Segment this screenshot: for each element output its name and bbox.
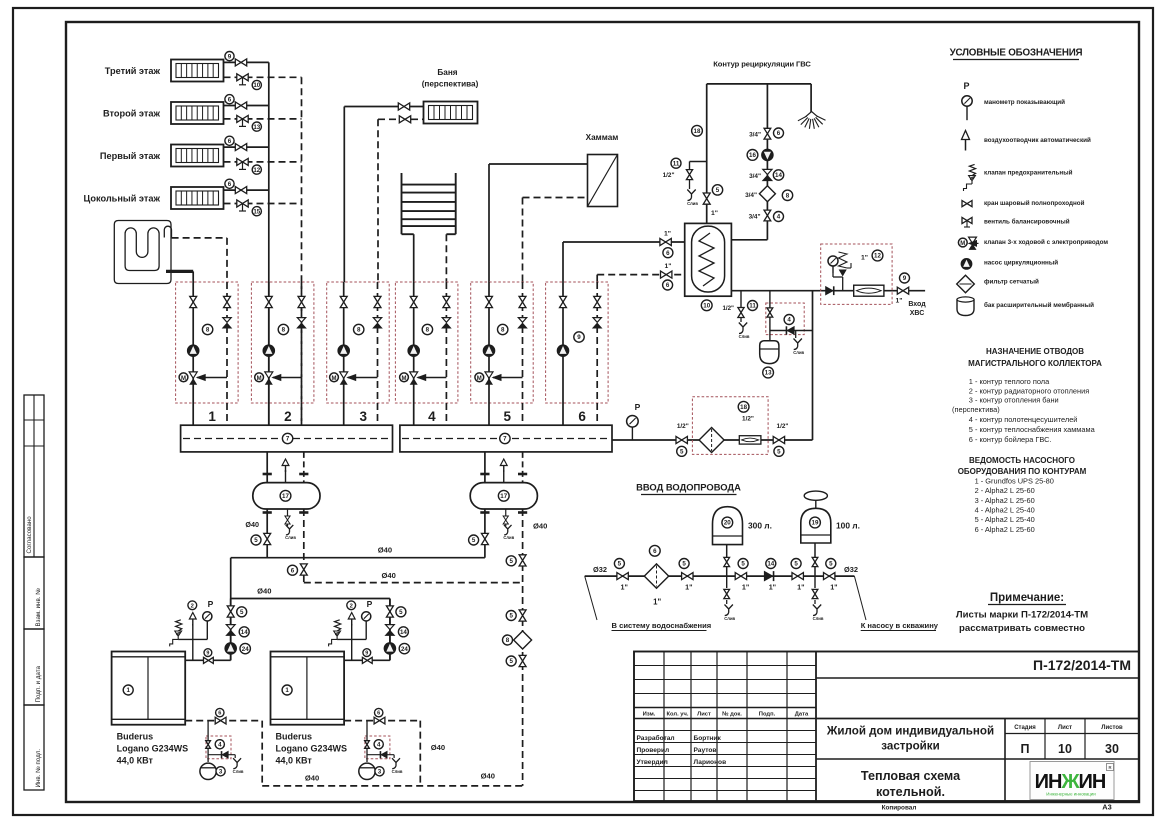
svg-text:6: 6: [228, 138, 232, 145]
svg-text:1": 1": [797, 583, 804, 592]
svg-text:Подп. и дата: Подп. и дата: [35, 665, 42, 702]
svg-text:клапан 3-х ходовой с электропр: клапан 3-х ходовой с электроприводом: [984, 238, 1108, 246]
svg-text:ВЕДОМОСТЬ НАСОСНОГО: ВЕДОМОСТЬ НАСОСНОГО: [969, 456, 1075, 465]
wire: circuit 5 return drop (dashed): [522, 282, 524, 425]
check valve on circuit 1 return: [223, 318, 231, 328]
title block signature rows: [637, 734, 727, 766]
node 9 label circuit 6: [574, 332, 584, 342]
svg-text:1": 1": [664, 231, 671, 238]
svg-text:4 - контур полотенцесушителей: 4 - контур полотенцесушителей: [969, 415, 1078, 424]
svg-text:2 - Alpha2 L 25-60: 2 - Alpha2 L 25-60: [975, 486, 1035, 495]
svg-text:Утвердил: Утвердил: [637, 759, 668, 766]
expansion connection red box 4 boiler 2: [365, 721, 394, 762]
legend title УСЛОВНЫЕ ОБОЗНАЧЕНИЯ: [950, 48, 1083, 60]
svg-text:Ø40: Ø40: [245, 520, 259, 529]
legend: pressure gauge symbol: [962, 81, 1065, 120]
svg-text:8: 8: [357, 327, 361, 334]
drain hook boiler 1 expansion: [233, 755, 244, 774]
drain below 100l tee: [812, 576, 824, 621]
svg-text:5: 5: [680, 449, 684, 456]
svg-text:19: 19: [812, 520, 819, 527]
ball valve on bania supply: [398, 103, 409, 110]
wire: boiler 1 outlet to riser: [185, 659, 231, 661]
svg-text:6: 6: [228, 181, 232, 188]
balancing valve 13 on return of radiator 2: [237, 115, 262, 131]
svg-text:клапан предохранительный: клапан предохранительный: [984, 169, 1073, 177]
expansion tank 13 (мембранный): [760, 341, 779, 378]
wire: circuit 2 return drop (dashed): [301, 282, 303, 425]
svg-text:Ø40: Ø40: [481, 772, 495, 781]
drain on separator A: [285, 509, 296, 540]
pump circuit 4: [408, 345, 420, 357]
svg-text:M: M: [181, 376, 186, 382]
safety valve on boiler 1 safety group: [170, 620, 182, 647]
wire: tank supply from circuit 6 (solid): [563, 242, 685, 282]
svg-text:4: 4: [428, 409, 436, 424]
svg-text:8: 8: [282, 327, 286, 334]
svg-text:5: 5: [503, 409, 511, 424]
boiler 1 label: [117, 732, 189, 766]
ball valve on circuit 6 supply: [560, 296, 567, 307]
wire: circuit 3 return drop (dashed): [377, 282, 379, 425]
ball valve on circuit 3 supply: [340, 296, 347, 307]
svg-text:Третий этаж: Третий этаж: [105, 66, 161, 76]
svg-text:Бортник: Бортник: [694, 735, 722, 742]
filter unit red box 18 on make-up line: [692, 397, 768, 455]
wire: circuit 5 supply drop: [488, 282, 490, 425]
leader: К насосу в скважину: [854, 576, 938, 630]
ball valve on circuit 1 supply: [190, 296, 197, 307]
svg-text:24: 24: [401, 646, 408, 653]
pump circuit 4 red dashed box: [395, 282, 458, 403]
svg-text:Ø32: Ø32: [844, 565, 858, 574]
svg-text:9: 9: [903, 275, 907, 282]
pressure tank 19 100l with gauge: [801, 491, 860, 543]
flanges on separator B bottom ports: [480, 511, 527, 514]
wire: serpentine return to circuit 1 (dashed): [172, 238, 227, 282]
text block ВЕДОМОСТЬ НАСОСНОГО ОБОРУДОВАНИЯ: [958, 456, 1087, 534]
wire: GVS recirc right drop to shower: [810, 84, 812, 112]
svg-text:8: 8: [426, 327, 430, 334]
svg-text:11: 11: [749, 303, 756, 310]
svg-text:воздухоотводчик автоматический: воздухоотводчик автоматический: [984, 136, 1091, 144]
svg-text:8: 8: [501, 327, 505, 334]
3-way valve with M drive circuit 3: [330, 372, 378, 385]
svg-text:Ø40: Ø40: [257, 587, 271, 596]
radiator Баня (перспектива): [422, 68, 479, 124]
svg-text:Кол. уч.: Кол. уч.: [666, 711, 688, 717]
legend: pump symbol: [961, 259, 1058, 270]
svg-text:1/2": 1/2": [677, 423, 689, 430]
left margin stamp box Взам. инв. №: [24, 557, 44, 629]
svg-text:1: 1: [208, 409, 216, 424]
3-way valve with M drive circuit 1: [179, 372, 227, 385]
svg-text:7: 7: [286, 436, 290, 443]
3-way valve with M drive circuit 2: [255, 372, 302, 385]
svg-text:17: 17: [282, 493, 289, 500]
wire: branch to drain near tank top: [690, 162, 707, 170]
svg-text:Ø40: Ø40: [533, 522, 547, 531]
svg-text:А3: А3: [1102, 803, 1111, 812]
flanges on separator A bottom ports: [263, 511, 309, 514]
flanges on separator B top ports: [480, 473, 527, 476]
svg-text:Logano G234WS: Logano G234WS: [117, 744, 189, 754]
wire: towel rail supply leg: [413, 234, 415, 282]
flanges on separator A top ports: [263, 473, 309, 476]
title block frame: [634, 652, 1139, 802]
svg-text:2: 2: [350, 603, 353, 609]
svg-text:8: 8: [506, 637, 510, 644]
svg-text:6: 6: [666, 282, 670, 289]
svg-text:П-172/2014-ТМ: П-172/2014-ТМ: [1033, 657, 1131, 673]
left margin stamp box Согласовано: [24, 395, 44, 557]
svg-text:Примечание:: Примечание:: [990, 592, 1064, 604]
ball valve 6 1" on tank supply: [660, 231, 673, 258]
ball valve on circuit 4 return: [443, 296, 450, 307]
svg-text:44,0 КВт: 44,0 КВт: [276, 756, 313, 766]
object name cell: [816, 725, 1139, 800]
svg-text:Слив: Слив: [687, 201, 698, 206]
svg-text:6: 6: [291, 567, 295, 574]
svg-text:кран шаровый полнопроходной: кран шаровый полнопроходной: [984, 199, 1085, 207]
drain on separator B: [503, 509, 514, 540]
svg-text:6: 6: [653, 548, 657, 555]
svg-text:6: 6: [578, 409, 586, 424]
check valve on circuit 4 return: [442, 318, 450, 328]
svg-text:2 - контур радиаторного отопле: 2 - контур радиаторного отопления: [969, 386, 1089, 395]
svg-text:12: 12: [874, 253, 881, 260]
wire return from radiator 1 (dashed): [224, 76, 302, 78]
svg-text:3/4": 3/4": [749, 214, 761, 221]
ball valve on circuit 5 return: [519, 296, 526, 307]
svg-text:10: 10: [253, 82, 260, 89]
svg-text:Ø40: Ø40: [431, 743, 445, 752]
svg-text:Слив: Слив: [813, 616, 824, 621]
svg-text:Контур рециркуляции ГВС: Контур рециркуляции ГВС: [713, 60, 811, 69]
svg-text:Лист: Лист: [697, 711, 711, 717]
svg-text:100 л.: 100 л.: [836, 521, 860, 531]
air vent 2 on boiler 2 safety group: [347, 601, 356, 640]
svg-text:Buderus: Buderus: [117, 732, 154, 742]
svg-text:6: 6: [228, 96, 232, 103]
svg-text:Проверил: Проверил: [637, 747, 670, 754]
drain hook Слив (tank top branch): [687, 180, 698, 206]
legend: 3-way valve with M symbol: [958, 237, 1108, 250]
ball valve on circuit 2 supply: [265, 296, 272, 307]
wire: boiler 2 riser: [389, 599, 391, 661]
wire: bottom return header (dashed) Ø40: [262, 743, 522, 786]
wire supply from radiator 2: [224, 105, 269, 107]
svg-text:5: 5: [741, 561, 745, 568]
wire: GVS recirc top header: [707, 83, 811, 85]
svg-text:5: 5: [682, 561, 686, 568]
svg-text:P: P: [208, 599, 214, 609]
svg-text:3/4": 3/4": [749, 173, 761, 180]
wire: circuit 4 supply drop: [413, 282, 415, 425]
svg-text:Слив: Слив: [503, 535, 514, 540]
ball valve on bania return: [399, 116, 410, 123]
svg-text:Взам. инв. №: Взам. инв. №: [35, 588, 42, 627]
pump circuit 2: [263, 345, 275, 357]
air vent on separator A: [282, 459, 289, 483]
svg-text:УСЛОВНЫЕ ОБОЗНАЧЕНИЯ: УСЛОВНЫЕ ОБОЗНАЧЕНИЯ: [950, 48, 1083, 59]
ball valve 5 below filter on boiler return drop: [506, 655, 526, 666]
svg-text:10: 10: [1058, 742, 1072, 756]
legend: balancing valve symbol: [962, 217, 1070, 227]
svg-text:1 - Grundfos UPS 25-80: 1 - Grundfos UPS 25-80: [975, 476, 1054, 485]
svg-text:6 - Alpha2 L 25-60: 6 - Alpha2 L 25-60: [975, 525, 1035, 534]
svg-text:Баня: Баня: [437, 68, 457, 77]
svg-text:1": 1": [830, 583, 837, 592]
ball valve 4 3/4" on recirc middle drop: [749, 210, 784, 221]
wire return from radiator 3 (dashed): [224, 161, 302, 163]
svg-text:1 - контур теплого пола: 1 - контур теплого пола: [969, 377, 1050, 386]
pump 24 on boiler 2 riser: [384, 643, 409, 655]
wire supply from radiator 3: [224, 146, 269, 148]
balancing valve 10 on return of radiator 1: [237, 74, 262, 90]
node 8 label circuit 2: [278, 324, 288, 334]
pressure gauge P on boiler 2 safety group: [362, 599, 373, 639]
svg-text:16: 16: [749, 152, 756, 159]
document code П-172/2014-ТМ: [816, 657, 1139, 719]
wire: circuit 6 return drop (dashed): [596, 282, 598, 425]
svg-text:МАГИСТРАЛЬНОГО КОЛЛЕКТОРА: МАГИСТРАЛЬНОГО КОЛЛЕКТОРА: [968, 359, 1102, 368]
node 8 label circuit 3: [354, 324, 364, 334]
balancing valve 12 on return of radiator 3: [237, 158, 262, 174]
ball valve 6 3/4" on recirc middle drop: [749, 128, 783, 139]
wire: boiler 1 riser: [230, 599, 232, 661]
svg-text:6 - контур бойлера ГВС.: 6 - контур бойлера ГВС.: [969, 435, 1052, 444]
svg-text:Ларионов: Ларионов: [694, 759, 727, 766]
svg-text:Лист: Лист: [1058, 725, 1072, 731]
wire: separator B return port down (dashed): [522, 509, 524, 786]
svg-text:Копировал: Копировал: [882, 805, 917, 812]
ball valve on circuit 1 return: [224, 296, 231, 307]
svg-text:3 - Alpha2 L 25-60: 3 - Alpha2 L 25-60: [975, 496, 1035, 505]
valve 11 1/2" drain branch: [663, 158, 693, 179]
pump circuit 6: [557, 345, 569, 357]
ball valve 6 on supply of radiator 3: [225, 136, 247, 150]
svg-text:Слив: Слив: [793, 350, 804, 355]
ball valve 5 on boiler 1 riser: [227, 606, 246, 617]
svg-text:5: 5: [777, 449, 781, 456]
svg-text:Вход: Вход: [908, 301, 926, 308]
boiler 2 Buderus Logano G234WS: [271, 652, 345, 725]
ball valve 6 1" on tank return: [661, 263, 673, 290]
wire: boiler supply header Ø40: [231, 546, 485, 661]
3-way valve with M drive circuit 4: [400, 372, 447, 385]
pump circuit 5: [483, 345, 495, 357]
svg-text:1": 1": [620, 583, 627, 592]
ball valve 6 on supply of radiator 4: [225, 179, 247, 193]
wire: circuit 6 supply drop: [562, 282, 564, 425]
svg-text:2: 2: [284, 409, 292, 424]
svg-text:1": 1": [711, 210, 718, 217]
strainer filter 8 on boiler return drop: [503, 631, 532, 649]
hydraulic separator 17 (B): [470, 483, 537, 509]
pump 24 on boiler 1 riser: [225, 643, 251, 655]
wire: boiler 1 return (dashed): [185, 721, 262, 786]
node 8 label circuit 5: [498, 324, 508, 334]
boiler 2 label: [276, 732, 348, 766]
svg-text:Инженерные инновации: Инженерные инновации: [1046, 792, 1096, 797]
expansion tank 3 boiler 2: [359, 763, 384, 779]
svg-text:ВВОД ВОДОПРОВОДА: ВВОД ВОДОПРОВОДА: [636, 482, 741, 493]
svg-text:10: 10: [703, 303, 710, 310]
ball valve 5 1" #5 on water line: [824, 559, 838, 592]
wire: serpentine supply to circuit 1 (thick): [166, 271, 193, 282]
svg-text:(перспектива): (перспектива): [952, 405, 1000, 414]
towel rail (полотенцесушитель): [402, 173, 456, 234]
ball valve on circuit 3 return: [374, 296, 381, 307]
svg-text:1": 1": [685, 583, 692, 592]
hot water tank 10 (бойлер ГВС): [685, 223, 732, 310]
wire: tee to 300l tank: [726, 545, 728, 577]
wire: tank return to circuit 6 (dashed): [597, 275, 685, 282]
svg-text:Слив: Слив: [724, 616, 735, 621]
svg-text:8: 8: [206, 327, 210, 334]
collector 7 (A) магистральный коллектор: [181, 425, 393, 452]
svg-text:Слив: Слив: [233, 769, 244, 774]
ball valve 6 on boiler 2 return: [374, 708, 385, 724]
radiator Третий этаж: [105, 60, 224, 82]
ball valve 5 1" #3 on water line: [735, 559, 749, 592]
ball valve 5 on boiler 2 riser: [386, 606, 405, 617]
drain branch 11 1/2" under tank line: [722, 291, 757, 339]
wire supply from radiator 4: [224, 189, 269, 191]
svg-text:9: 9: [206, 651, 209, 657]
ball valve 5 Ø40 on separator A supply: [245, 520, 270, 545]
company logo ИНЖИН: [1030, 762, 1114, 800]
svg-text:Buderus: Buderus: [276, 732, 313, 742]
expansion connection red box 4 boiler 1: [206, 721, 235, 762]
svg-text:1": 1": [653, 598, 661, 607]
ball valve 9 on boiler 1 outlet: [204, 649, 214, 664]
svg-text:1/2": 1/2": [742, 415, 754, 422]
svg-text:1/2": 1/2": [722, 305, 734, 312]
svg-text:1: 1: [285, 687, 289, 694]
wire return from radiator 4 (dashed): [224, 203, 302, 205]
pump circuit 2 red dashed box: [251, 282, 314, 403]
svg-text:5: 5: [829, 561, 833, 568]
svg-text:вентиль балансировочный: вентиль балансировочный: [984, 218, 1070, 226]
wire: tee to 100l tank: [814, 543, 816, 576]
wire: make-up line to collector (right drop): [612, 291, 813, 440]
check valve 14 1" on water line: [764, 559, 776, 592]
air vent 2 on boiler 1 safety group: [188, 601, 197, 640]
svg-text:5: 5: [240, 609, 244, 616]
radiator Первый этаж: [100, 145, 224, 167]
svg-text:20: 20: [724, 520, 731, 527]
svg-text:12: 12: [253, 167, 260, 174]
svg-text:11: 11: [673, 160, 680, 167]
strainer filter 8 3/4" on recirc middle drop: [745, 186, 793, 202]
svg-text:9: 9: [365, 651, 368, 657]
svg-text:5: 5: [509, 613, 513, 620]
svg-text:Инв. № подл.: Инв. № подл.: [35, 749, 42, 788]
strainer filter 6 1" on water line: [644, 545, 668, 606]
ball valve 6 on separator A return: [288, 564, 308, 575]
svg-text:M: M: [257, 376, 262, 382]
wire: separator B supply port down: [484, 509, 486, 558]
svg-text:1": 1": [664, 263, 671, 270]
svg-text:M: M: [402, 376, 407, 382]
legend: strainer symbol: [957, 275, 1039, 293]
drain below 300l tee: [724, 576, 736, 621]
check valve 14 3/4" on recirc middle drop: [749, 169, 784, 180]
pump circuit 3 red dashed box: [327, 282, 390, 403]
wire: boiler 2 return (dashed): [344, 721, 420, 786]
ball valve on circuit 2 return: [298, 296, 305, 307]
3-way valve with M drive circuit 5: [475, 372, 523, 385]
svg-text:6: 6: [377, 711, 380, 717]
svg-text:2: 2: [191, 603, 194, 609]
wire: supply branch to boiler 2 Ø40: [231, 587, 390, 661]
node 8 label circuit 4: [422, 324, 432, 334]
ball valve 5 1" #4 on water line: [791, 559, 804, 592]
wire: boiler 2 outlet to riser: [344, 659, 390, 661]
wire: separator A return port down (dashed): [303, 509, 305, 583]
svg-text:В систему водоснабжения: В систему водоснабжения: [612, 621, 712, 630]
node 18 on GVS left drop: [692, 125, 703, 136]
expansion tank 3 boiler 1: [200, 763, 225, 779]
svg-text:300 л.: 300 л.: [748, 521, 772, 531]
ball valve 9 1" at Вход ХВС: [895, 273, 909, 305]
storage tank 20 300l: [713, 507, 772, 545]
ball valve 5 on GVS left drop: [703, 185, 722, 217]
svg-text:Раутов: Раутов: [694, 747, 717, 754]
valve on 100l tank stem: [812, 557, 818, 566]
svg-text:Logano G234WS: Logano G234WS: [276, 744, 348, 754]
wire: circuit 1 return drop (dashed): [226, 282, 228, 425]
wire: water inlet main line Ø32: [585, 565, 858, 576]
pressure reducing valve cartridge: [854, 285, 884, 296]
svg-text:4 - Alpha2 L 25-40: 4 - Alpha2 L 25-40: [975, 506, 1035, 515]
svg-text:Ø40: Ø40: [305, 774, 319, 783]
ball valve 5 Ø40 on separator B return: [506, 522, 547, 567]
svg-text:4: 4: [377, 742, 381, 749]
svg-text:К насосу в скважину: К насосу в скважину: [861, 621, 939, 630]
pressure gauge P on boiler 1 safety group: [203, 599, 214, 639]
check valve on circuit 6 return: [593, 318, 601, 328]
svg-text:5: 5: [472, 537, 476, 544]
ball valve on circuit 4 supply: [410, 296, 417, 307]
svg-text:рассматривать совместно: рассматривать совместно: [959, 623, 1085, 634]
wire: circuit 3 supply drop: [343, 282, 345, 425]
svg-text:Хаммам: Хаммам: [586, 133, 619, 142]
ball valve 5 1" #1 on water line: [614, 559, 628, 592]
stage/sheet table: [1005, 719, 1139, 802]
svg-text:14: 14: [775, 172, 782, 179]
svg-text:14: 14: [241, 629, 248, 636]
ball valve 9 on boiler 2 outlet: [362, 649, 372, 664]
svg-text:24: 24: [242, 646, 249, 653]
floor heating serpentine coil (контур теплого пола): [114, 221, 171, 284]
pump 16 circulation GVS: [747, 149, 773, 161]
svg-text:Ø32: Ø32: [593, 565, 607, 574]
svg-text:5 - Alpha2 L 25-40: 5 - Alpha2 L 25-40: [975, 515, 1035, 524]
label ВВОД ВОДОПРОВОДА: [636, 482, 741, 495]
legend: safety valve symbol: [964, 164, 1073, 191]
svg-text:18: 18: [694, 128, 701, 135]
ball valve on circuit 6 return: [594, 296, 601, 307]
svg-text:5: 5: [618, 561, 622, 568]
svg-text:6: 6: [777, 130, 781, 137]
make-up branch red box 4 (подпитка): [766, 291, 813, 341]
svg-text:Слив: Слив: [739, 334, 750, 339]
svg-text:3 - контур отопления бани: 3 - контур отопления бани: [969, 396, 1059, 405]
drain hook on make-up branch: [793, 331, 804, 356]
